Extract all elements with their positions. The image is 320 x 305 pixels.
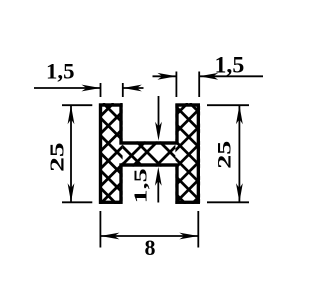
arrowhead left-pointing at x=199.2 xyxy=(199,73,218,80)
crosshatch: web xyxy=(117,141,184,166)
arrowhead right-pointing at x=100.5 xyxy=(82,85,101,92)
left 25 dimension line xyxy=(70,105,72,202)
svg-text:1,5: 1,5 xyxy=(130,168,150,203)
dimension line left tail (top-left 1,5) xyxy=(34,87,101,89)
bottom 8 extension line right xyxy=(197,211,199,248)
svg-text:25: 25 xyxy=(46,142,68,172)
crosshatch: left bar xyxy=(0,103,222,204)
svg-text:25: 25 xyxy=(214,141,235,169)
extension line top-left of profile xyxy=(62,104,92,106)
dimension: bottom 8 extension line left xyxy=(99,211,101,248)
arrowhead right-pointing at x=198.3 xyxy=(179,233,198,240)
H-profile cross-section outline xyxy=(101,105,199,202)
middle 1,5 lower leader xyxy=(157,181,159,203)
arrowhead left-pointing at x=122.8 xyxy=(123,85,142,92)
svg-text:1,5: 1,5 xyxy=(215,53,245,78)
extension line bottom-right of profile xyxy=(207,201,249,203)
H-profile outline re-stroke xyxy=(101,105,199,202)
extension line left bar left edge xyxy=(100,83,102,97)
extension line right bar left edge xyxy=(175,72,177,98)
extension line top-right of profile xyxy=(207,104,249,106)
arrowhead left-pointing at x=100.4 xyxy=(100,233,119,240)
extension line left bar right edge xyxy=(122,83,124,97)
dimension: middle 1,5 (web thickness) upper leader xyxy=(158,96,160,127)
dimension line right tail (top-right 1,5) xyxy=(199,75,263,77)
extension line bottom-left of profile xyxy=(62,201,92,203)
crosshatch: right bar xyxy=(85,103,293,204)
right 25 dimension line xyxy=(238,105,240,202)
bottom 8 dimension line xyxy=(100,235,198,237)
svg-text:8: 8 xyxy=(145,235,156,260)
arrowhead up-pointing at y=166.8 xyxy=(155,167,162,186)
dimension line right tail (top-left 1,5) xyxy=(123,87,144,89)
extension line right bar right edge xyxy=(198,72,200,98)
arrowhead down-pointing at y=140.8 xyxy=(155,122,162,141)
arrowhead up-pointing at y=105.2 xyxy=(68,105,75,124)
arrowhead down-pointing at y=202.3 xyxy=(236,183,243,202)
dimension line left tail (top-right 1,5) xyxy=(153,75,177,77)
svg-text:1,5: 1,5 xyxy=(46,59,75,84)
arrowhead down-pointing at y=202.3 xyxy=(68,183,75,202)
arrowhead up-pointing at y=105.2 xyxy=(236,105,243,124)
arrowhead right-pointing at x=176.4 xyxy=(157,73,176,80)
